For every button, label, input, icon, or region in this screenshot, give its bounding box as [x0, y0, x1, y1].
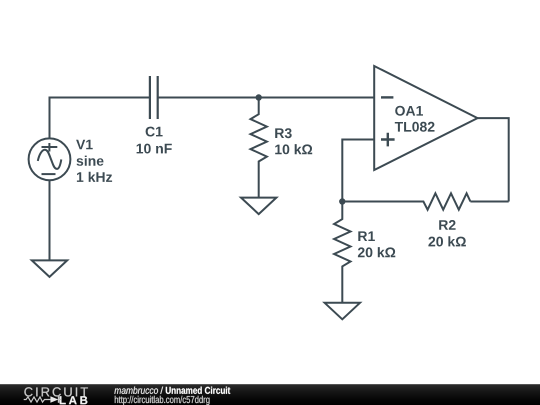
ground symbol at R3	[241, 198, 276, 215]
label V1 designator	[76, 140, 93, 150]
op-amp inverting pin mark	[381, 96, 393, 98]
label OA1 part TL082	[395, 122, 435, 132]
label R3 value 10 kOhm	[275, 144, 312, 154]
ground symbol at V1	[32, 260, 67, 277]
op-amp non-inverting pin mark	[381, 133, 395, 147]
label C1 designator	[146, 127, 163, 137]
wire from C1 right plate to node A	[158, 97, 259, 99]
footer separator slash	[160, 387, 163, 394]
label V1 type sine	[77, 156, 104, 166]
label OA1 designator	[395, 106, 423, 116]
wire top from V1 to C1 left plate	[50, 98, 150, 138]
footer author mambrucco	[114, 387, 158, 394]
label R3 designator	[275, 128, 292, 138]
footer bar	[0, 384, 540, 405]
voltage source V1	[29, 138, 71, 180]
resistor R3	[251, 98, 267, 198]
label V1 value 1 kHz	[77, 172, 112, 182]
capacitor C1	[150, 76, 158, 119]
node A junction dot	[256, 94, 262, 100]
resistor R1	[334, 202, 350, 303]
resistor R2	[342, 193, 470, 209]
wire output corner to R2 right lead	[470, 201, 508, 203]
CircuitLab logo wordmark LAB	[60, 396, 88, 404]
ground symbol at R1	[325, 303, 360, 320]
label R2 value 20 kOhm	[428, 236, 466, 246]
wire V1 bottom to ground	[49, 180, 51, 260]
op-amp OA1 body	[374, 66, 477, 170]
node B junction dot	[339, 198, 345, 204]
footer title Unnamed Circuit	[166, 387, 230, 394]
label R1 value 20 kOhm	[358, 247, 395, 257]
wire op-amp output	[478, 118, 509, 201]
CircuitLab logo waveform and diode	[24, 396, 61, 403]
wire from node A to op-amp inverting input	[259, 97, 375, 99]
label C1 value 10 nF	[137, 144, 172, 154]
footer url	[115, 396, 210, 405]
label R1 designator	[358, 231, 375, 241]
label R2 designator	[439, 220, 455, 230]
wire op-amp non-inverting input to node B	[342, 140, 374, 202]
CircuitLab logo wordmark CIRCUIT	[24, 387, 88, 396]
